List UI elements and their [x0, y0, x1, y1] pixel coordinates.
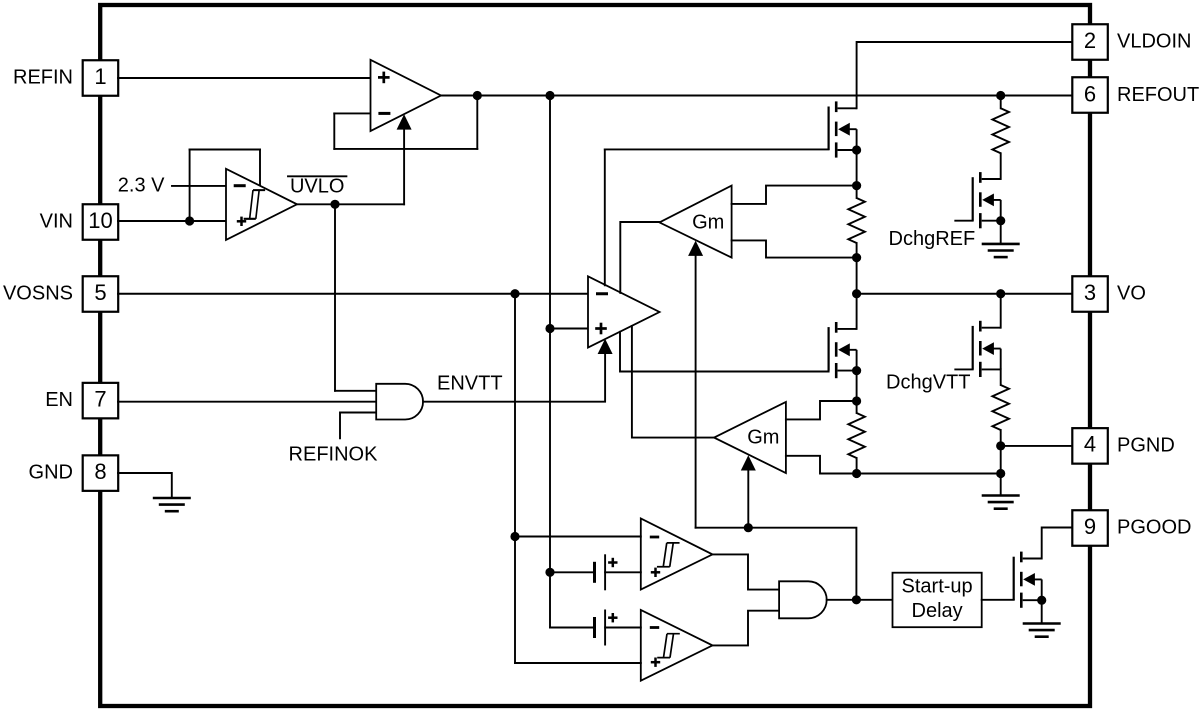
wire Q2 drain from VO line — [856, 294, 858, 329]
wire resistor bottom stub — [856, 458, 858, 474]
svg-text:5: 5 — [94, 280, 106, 305]
transistor Q3 DchgREF — [973, 172, 1001, 228]
battery U5 + label — [608, 613, 617, 622]
wire buffer - input — [334, 112, 370, 114]
pin box 5 VOSNS — [83, 276, 119, 312]
node error amp + tap — [545, 324, 554, 333]
svg-text:GND: GND — [29, 462, 73, 484]
wire Start-up Delay to Q5 gate — [982, 599, 1014, 601]
comparator U2 UVLO (with hysteresis) — [226, 169, 297, 240]
node VO bus junction — [852, 289, 861, 298]
svg-text:UVLO: UVLO — [290, 176, 344, 198]
svg-text:VOSNS: VOSNS — [3, 283, 73, 305]
battery offset U4 — [595, 554, 606, 590]
svg-text:VO: VO — [1117, 283, 1146, 305]
U3 + glyph — [595, 323, 607, 335]
transistor Q5 PGOOD open-drain FET — [1014, 552, 1042, 608]
svg-text:8: 8 — [94, 459, 106, 484]
node buffer output feedback junction — [473, 91, 482, 100]
wire GND pin to ground — [118, 473, 172, 498]
wire UVLO down to AND gate input — [334, 204, 336, 390]
node ground tie — [996, 469, 1005, 478]
wire Q1 gate drive horizontal — [605, 148, 829, 150]
svg-text:VIN: VIN — [40, 211, 73, 233]
wire VLDOIN pin to Q1 drain — [857, 42, 1072, 108]
pin box 6 REFOUT — [1072, 77, 1108, 113]
wire Q3 gate stub — [955, 220, 972, 222]
resistor DchgVTT pull-down — [992, 369, 1009, 446]
U5 + glyph — [651, 658, 660, 667]
wire buffer feedback right vertical — [476, 96, 478, 149]
node REFOUT to DchgREF resistor branch — [996, 91, 1005, 100]
svg-text:Start-up: Start-up — [902, 576, 973, 598]
U1 - glyph — [378, 112, 390, 114]
block Start-up Delay — [893, 573, 982, 628]
transistor Q2 VTT output FET — [829, 322, 857, 378]
U4 hysteresis glyph — [657, 543, 680, 567]
wire VOSNS pin to error amp - input — [118, 293, 588, 295]
svg-text:DchgREF: DchgREF — [889, 228, 976, 250]
wire buffer feedback left vertical — [333, 113, 335, 148]
U5 hysteresis glyph — [657, 634, 680, 658]
wire U3 output to Q2 gate — [620, 332, 829, 372]
wire Gm1 output into U3 top edge — [620, 222, 659, 293]
svg-text:2.3 V: 2.3 V — [118, 175, 165, 197]
pin box 7 EN — [83, 383, 119, 419]
U3 - glyph — [596, 293, 608, 295]
wire Gm2 output into U3 bottom edge — [632, 326, 714, 438]
node Gm1 top tap — [852, 181, 861, 190]
U5 - glyph — [650, 627, 659, 629]
resistor DchgREF pull-down — [992, 96, 1009, 180]
wire Q2 source to Gm2 resistor — [856, 371, 858, 413]
wire Gm2 enable shaft — [747, 470, 749, 528]
wire REFOUT net: buffer output to pin 6 — [441, 95, 1072, 97]
node VO DchgVTT branch — [996, 289, 1005, 298]
wire Q3 source to ground — [1000, 221, 1002, 244]
arrowhead Gm2 enable — [741, 455, 756, 470]
node REFOUT to error amp branch — [545, 91, 554, 100]
svg-text:VLDOIN: VLDOIN — [1117, 31, 1191, 53]
wire UVLO output — [297, 203, 404, 205]
wire Q1 source to resistor — [856, 150, 858, 198]
node VOSNS branch — [510, 289, 519, 298]
node Gm1 bottom tap — [852, 253, 861, 262]
svg-text:Gm: Gm — [692, 212, 724, 234]
node Q3 source — [996, 216, 1005, 225]
svg-text:REFINOK: REFINOK — [289, 443, 379, 465]
node VIN junction — [185, 216, 194, 225]
U2 + glyph — [237, 217, 246, 226]
comparator U4 VOSNS high (window) — [641, 519, 713, 590]
AND gate PGOOD (2-input) — [779, 581, 827, 618]
wire VO net to pin 3 — [857, 293, 1072, 295]
U4 - glyph — [650, 536, 659, 538]
wire Gm2 top input bracket — [786, 401, 857, 419]
wire REF to U4 offset battery — [550, 571, 595, 573]
wire U5 output to AND gate — [713, 611, 780, 646]
wire PGND to ground tie — [1000, 446, 1002, 474]
wire Gm1 enable shaft — [695, 255, 697, 528]
pin box 9 PGOOD — [1072, 510, 1108, 546]
op-amp U1 REFIN buffer — [371, 60, 442, 131]
wire U1 enable shaft from UVLO node — [403, 129, 405, 205]
wire battery to U4 + input — [605, 571, 641, 573]
label UVLO overline — [288, 175, 346, 177]
wire REFOUT vertical down to error amp and comparators — [549, 96, 551, 628]
wire Q4 drain from VO line — [1000, 294, 1002, 328]
svg-text:PGND: PGND — [1117, 434, 1175, 456]
wire Q4 gate stub — [955, 368, 972, 370]
wire U4 output to AND gate — [713, 554, 780, 589]
op-amp U3 error amplifier — [588, 276, 660, 347]
wire Gm2 bottom input bracket — [786, 456, 857, 474]
transistor Q1 REFOUT pass FET — [829, 101, 857, 157]
pin box 3 VO — [1072, 276, 1108, 312]
wire U3 output to Q1 gate (vertical) — [604, 149, 606, 285]
svg-text:7: 7 — [94, 386, 106, 411]
wire error amp + input — [550, 328, 588, 330]
ground at GND pin — [153, 498, 191, 511]
node Gm2 bottom tap — [852, 469, 861, 478]
AND gate ENVTT (3-input) — [376, 384, 423, 420]
wire ENVTT output to error amp enable — [423, 353, 605, 402]
svg-text:REFOUT: REFOUT — [1117, 84, 1199, 106]
wire VIN supply loop right vertical to comparator top edge — [259, 150, 261, 187]
node UVLO — [330, 200, 339, 209]
wire Gm2 divider to DchgVTT ground tie — [857, 473, 1001, 475]
resistor REF divider (Gm1 sense) — [848, 198, 865, 243]
svg-text:10: 10 — [88, 208, 112, 233]
svg-text:1: 1 — [94, 64, 106, 89]
ground DchgVTT — [982, 496, 1020, 509]
wire VOSNS to U5 + input — [515, 662, 641, 664]
svg-text:ENVTT: ENVTT — [437, 372, 503, 394]
wire Q5 source to ground — [1041, 600, 1043, 623]
svg-text:REFIN: REFIN — [13, 67, 73, 89]
arrowhead Gm1 enable — [688, 241, 703, 256]
arrowhead error amp enable — [598, 339, 613, 354]
battery U4 + label — [608, 558, 617, 567]
node Gm2 top tap — [852, 396, 861, 405]
wire 2.3V to UVLO comparator - input — [172, 185, 226, 187]
node Q5 source — [1037, 596, 1046, 605]
svg-text:6: 6 — [1084, 81, 1096, 106]
node enable branch to Gm2 — [744, 523, 753, 532]
node Q1 source — [852, 145, 861, 154]
svg-text:9: 9 — [1084, 514, 1096, 539]
ground DchgREF — [982, 244, 1020, 257]
wire Gm1 bottom input bracket — [732, 240, 857, 257]
pin box 10 VIN — [83, 204, 119, 240]
wire REFIN pin to buffer + input — [118, 77, 371, 79]
node AND output — [852, 595, 861, 604]
wire VOSNS vertical down to window comparators — [514, 294, 516, 663]
U2 hysteresis glyph — [244, 190, 265, 219]
svg-text:PGOOD: PGOOD — [1117, 517, 1191, 539]
wire U4 - input from VOSNS — [515, 536, 641, 538]
wire Gm1 top input bracket — [732, 186, 857, 204]
wire tie to ground symbol — [1000, 474, 1002, 496]
node VOSNS to U4 tap — [510, 532, 519, 541]
node PGND tap — [996, 441, 1005, 450]
wire UVLO into AND gate — [335, 390, 376, 392]
node Q2 source — [852, 366, 861, 375]
arrowhead U1 enable — [397, 114, 412, 129]
node REF battery tap — [545, 568, 554, 577]
transconductance amp Gm1 — [659, 186, 731, 258]
wire VIN supply loop left vertical — [189, 150, 191, 222]
pin box 2 VLDOIN — [1072, 24, 1108, 60]
wire AND output to Start-up Delay — [827, 599, 893, 601]
wire enable net up from AND output — [696, 528, 857, 600]
U2 - glyph — [234, 185, 246, 187]
wire buffer feedback bottom — [334, 148, 477, 150]
battery offset U5 — [595, 610, 606, 646]
wire Q5 drain to PGOOD pin — [1042, 528, 1072, 559]
transconductance amp Gm2 — [714, 402, 786, 473]
resistor VTT divider (Gm2 sense) — [848, 413, 865, 458]
U4 + glyph — [651, 568, 660, 577]
U1 + glyph — [378, 72, 390, 84]
svg-text:DchgVTT: DchgVTT — [886, 372, 970, 394]
wire REFINOK stub into AND gate — [340, 413, 376, 439]
wire resistor to VO line — [856, 243, 858, 294]
wire REF to U5 offset battery — [550, 627, 595, 629]
pin box 1 REFIN — [83, 60, 119, 96]
svg-text:2: 2 — [1084, 28, 1096, 53]
ground PGOOD FET — [1023, 624, 1061, 637]
pin box 8 GND — [83, 455, 119, 491]
wire VIN supply loop top — [190, 149, 260, 151]
wire PGND net — [1001, 445, 1072, 447]
svg-text:EN: EN — [45, 389, 73, 411]
wire EN pin to AND gate — [118, 401, 376, 403]
comparator U5 VOSNS low (window) — [641, 610, 713, 681]
wire battery to U5 - input — [605, 627, 641, 629]
svg-text:Delay: Delay — [912, 600, 963, 622]
wire VIN pin to UVLO comparator + input — [118, 220, 226, 222]
svg-text:3: 3 — [1084, 280, 1096, 305]
svg-text:Gm: Gm — [747, 427, 779, 449]
pin box 4 PGND — [1072, 428, 1108, 464]
transistor Q4 DchgVTT — [973, 321, 1001, 377]
svg-text:4: 4 — [1084, 432, 1096, 457]
